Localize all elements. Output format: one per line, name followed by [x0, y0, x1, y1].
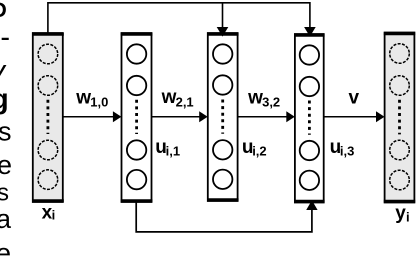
svg-text:v: v — [349, 88, 360, 109]
svg-text:-: - — [0, 21, 10, 53]
svg-text:3,2: 3,2 — [262, 95, 280, 110]
svg-text:s: s — [0, 117, 12, 147]
svg-text:i: i — [406, 210, 410, 225]
svg-text:w: w — [247, 87, 263, 108]
svg-text:e: e — [0, 238, 11, 256]
svg-text:1,0: 1,0 — [90, 95, 108, 110]
svg-text:i,2: i,2 — [252, 143, 266, 158]
svg-text:a: a — [0, 204, 12, 234]
svg-text:i: i — [52, 207, 56, 222]
svg-text:e: e — [0, 150, 12, 180]
svg-text:D: D — [0, 0, 7, 22]
svg-text:w: w — [161, 87, 177, 108]
svg-text:s: s — [0, 180, 9, 207]
svg-text:g: g — [0, 84, 9, 116]
svg-text:y: y — [395, 203, 406, 224]
svg-text:i,3: i,3 — [340, 143, 354, 158]
svg-text:i,1: i,1 — [166, 143, 180, 158]
svg-text:2,1: 2,1 — [176, 94, 194, 109]
svg-text:y: y — [0, 55, 7, 87]
svg-text:w: w — [75, 87, 91, 108]
